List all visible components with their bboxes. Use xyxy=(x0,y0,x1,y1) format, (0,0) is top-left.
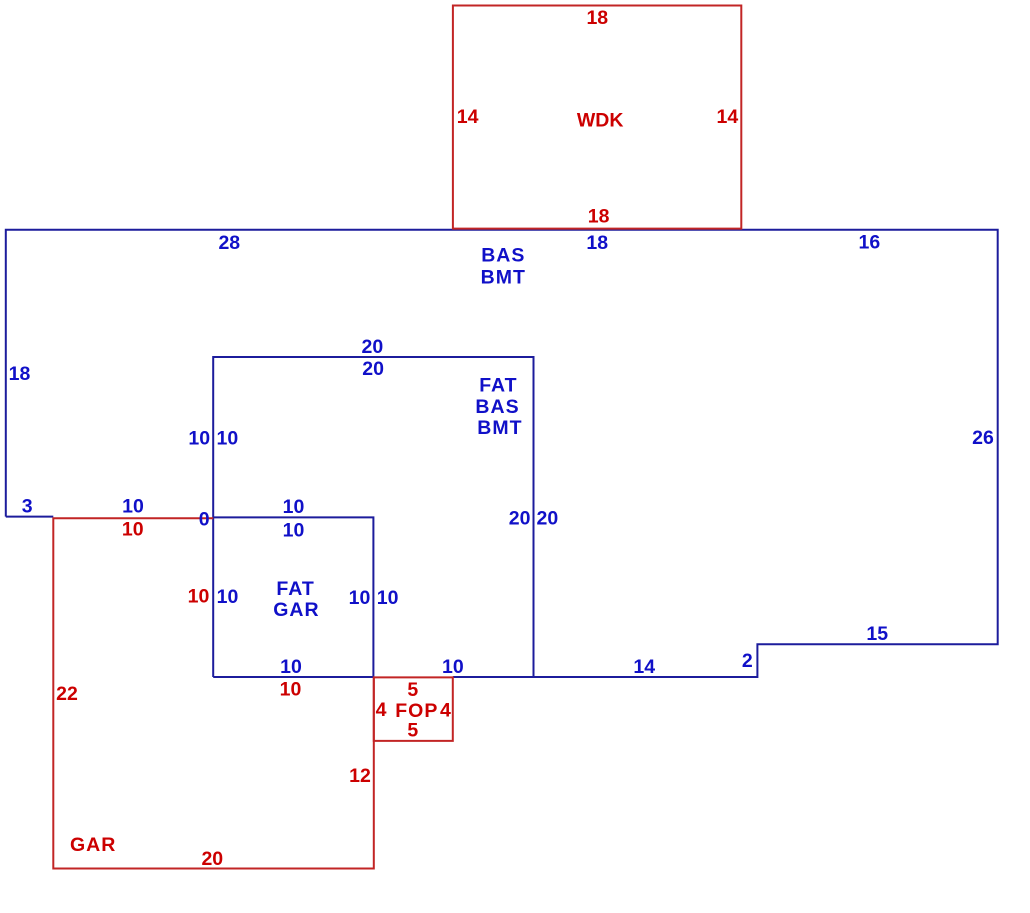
svg-text:2: 2 xyxy=(742,650,753,672)
svg-text:BAS: BAS xyxy=(481,245,525,267)
svg-text:10: 10 xyxy=(280,656,302,678)
svg-text:GAR: GAR xyxy=(273,599,319,621)
svg-text:26: 26 xyxy=(972,427,994,449)
svg-text:0: 0 xyxy=(199,509,210,531)
svg-text:22: 22 xyxy=(56,683,78,705)
svg-text:10: 10 xyxy=(349,587,371,609)
svg-text:5: 5 xyxy=(407,720,418,742)
svg-text:BMT: BMT xyxy=(481,267,526,289)
svg-text:20: 20 xyxy=(509,507,531,529)
svg-text:18: 18 xyxy=(586,7,608,29)
svg-text:14: 14 xyxy=(457,106,479,128)
svg-text:4: 4 xyxy=(376,699,387,721)
svg-text:10: 10 xyxy=(217,428,239,450)
svg-text:14: 14 xyxy=(633,656,655,678)
svg-text:20: 20 xyxy=(362,336,384,358)
svg-text:10: 10 xyxy=(377,587,399,609)
svg-text:GAR: GAR xyxy=(70,834,116,856)
svg-text:10: 10 xyxy=(188,428,210,450)
svg-text:FAT: FAT xyxy=(276,578,314,600)
svg-text:4: 4 xyxy=(440,700,451,722)
svg-text:20: 20 xyxy=(537,507,559,529)
svg-text:18: 18 xyxy=(9,363,31,385)
svg-text:28: 28 xyxy=(218,232,240,254)
svg-text:20: 20 xyxy=(362,358,384,380)
svg-text:15: 15 xyxy=(866,623,888,645)
svg-text:10: 10 xyxy=(280,678,302,700)
svg-text:10: 10 xyxy=(283,520,305,542)
svg-text:18: 18 xyxy=(588,205,610,227)
svg-text:10: 10 xyxy=(188,586,210,608)
svg-text:FAT: FAT xyxy=(479,375,517,397)
svg-text:10: 10 xyxy=(122,495,144,517)
svg-text:5: 5 xyxy=(407,679,418,701)
svg-text:10: 10 xyxy=(283,496,305,518)
svg-text:BAS: BAS xyxy=(475,396,519,418)
svg-text:14: 14 xyxy=(717,106,739,128)
svg-text:3: 3 xyxy=(22,495,33,517)
svg-text:10: 10 xyxy=(122,519,144,541)
svg-text:20: 20 xyxy=(201,848,223,870)
svg-text:10: 10 xyxy=(442,656,464,678)
svg-text:16: 16 xyxy=(859,231,881,253)
svg-text:10: 10 xyxy=(217,586,239,608)
svg-text:BMT: BMT xyxy=(477,417,522,439)
svg-text:18: 18 xyxy=(586,232,608,254)
svg-text:12: 12 xyxy=(349,765,371,787)
svg-text:WDK: WDK xyxy=(577,110,624,132)
